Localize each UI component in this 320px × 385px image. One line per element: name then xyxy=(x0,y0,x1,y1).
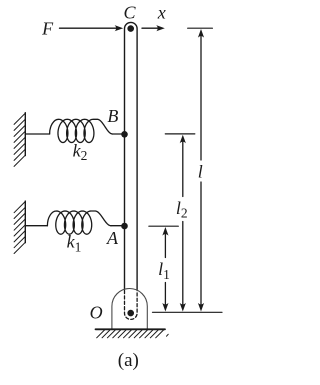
label l1 xyxy=(158,259,170,282)
dimension l1 arrowheads xyxy=(162,227,168,312)
x direction arrow xyxy=(142,27,158,29)
force F arrow xyxy=(60,27,117,29)
node C (pin at top of rod) xyxy=(127,25,134,32)
ground line with hatching xyxy=(96,329,169,338)
dimension l2 arrowheads xyxy=(180,135,186,312)
dimension l arrowheads xyxy=(198,29,204,312)
rod hidden part inside support (dashed) xyxy=(125,291,138,320)
label B xyxy=(107,106,118,126)
label x xyxy=(157,3,166,23)
x arrow arrowhead xyxy=(156,25,165,31)
label A xyxy=(106,228,119,248)
bottom reference tick at O level xyxy=(153,311,223,313)
svg-text:B: B xyxy=(107,106,118,126)
svg-text:l2: l2 xyxy=(176,198,188,221)
spring k1 xyxy=(25,211,123,234)
spring k2 xyxy=(25,119,123,142)
svg-text:k2: k2 xyxy=(73,140,88,163)
caption (a) xyxy=(118,350,139,371)
dimension l2 (O to B) xyxy=(165,134,195,304)
svg-text:l: l xyxy=(198,162,203,182)
svg-text:x: x xyxy=(157,3,166,23)
dimension l (O to C) xyxy=(188,28,213,304)
upper wall (hatched support of k2) xyxy=(14,113,25,167)
svg-text:O: O xyxy=(90,302,103,322)
svg-text:l1: l1 xyxy=(158,259,170,282)
svg-text:C: C xyxy=(123,2,136,22)
pivot housing dome at O xyxy=(112,289,147,330)
force F arrowhead xyxy=(115,25,124,31)
pin O (hinge dot) xyxy=(127,310,134,317)
svg-text:k1: k1 xyxy=(67,232,82,255)
label C xyxy=(123,2,136,22)
label l xyxy=(198,162,203,182)
label F xyxy=(41,18,54,38)
label k2 xyxy=(73,140,88,163)
rod (bar OC, solid visible part) xyxy=(125,22,138,289)
svg-text:(a): (a) xyxy=(118,350,139,371)
node B (attachment of k2 on rod) xyxy=(121,131,128,138)
label k1 xyxy=(67,232,82,255)
svg-text:F: F xyxy=(41,18,54,38)
label O xyxy=(90,302,103,322)
svg-text:A: A xyxy=(106,228,119,248)
lower wall (hatched support of k1) xyxy=(14,201,25,253)
node A (attachment of k1 on rod) xyxy=(121,223,128,230)
label l2 xyxy=(176,198,188,221)
dimension l1 (O to A) xyxy=(149,226,178,304)
